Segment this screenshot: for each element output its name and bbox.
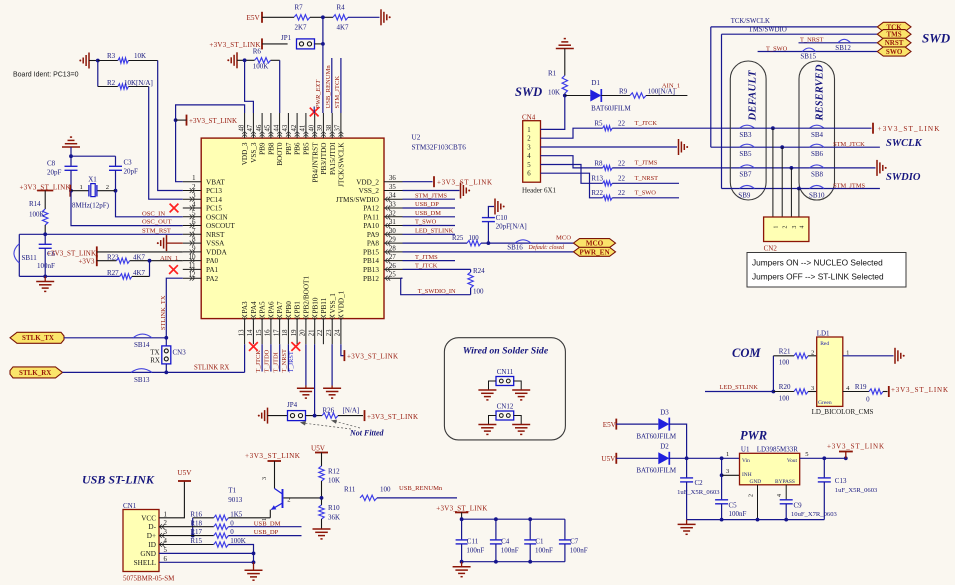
svg-text:STM_JTMS: STM_JTMS: [415, 192, 447, 199]
svg-text:100: 100: [469, 235, 480, 242]
svg-text:+3V3_ST_LINK: +3V3_ST_LINK: [367, 413, 418, 421]
svg-text:USB_DM: USB_DM: [415, 210, 441, 217]
svg-text:38: 38: [326, 124, 333, 131]
svg-text:INH: INH: [742, 472, 752, 478]
svg-text:PA9: PA9: [367, 231, 380, 239]
svg-text:12: 12: [189, 272, 196, 279]
svg-text:20pF: 20pF: [47, 169, 62, 177]
svg-text:SB7: SB7: [739, 171, 752, 179]
svg-text:T_SWO: T_SWO: [415, 219, 437, 226]
svg-text:PA15/JTDI: PA15/JTDI: [329, 142, 337, 175]
svg-text:2: 2: [287, 497, 290, 504]
svg-text:VDD_2: VDD_2: [356, 178, 379, 186]
svg-text:VSS_3: VSS_3: [250, 142, 258, 163]
svg-text:LD_BICOLOR_CMS: LD_BICOLOR_CMS: [812, 408, 874, 416]
svg-text:T_JTCK: T_JTCK: [635, 120, 658, 127]
svg-text:+3V3_ST_LINK: +3V3_ST_LINK: [47, 249, 96, 257]
svg-text:0: 0: [230, 519, 234, 527]
svg-text:100K: 100K: [29, 211, 45, 219]
svg-text:34: 34: [389, 193, 396, 200]
svg-text:PWR_EXT: PWR_EXT: [315, 79, 322, 110]
svg-text:100K: 100K: [230, 537, 246, 545]
svg-text:22: 22: [618, 175, 626, 183]
svg-text:R11: R11: [344, 486, 356, 494]
svg-text:USB_DP: USB_DP: [254, 529, 279, 536]
svg-text:SB9: SB9: [738, 191, 751, 199]
svg-text:PB12: PB12: [363, 275, 379, 283]
svg-text:SB11: SB11: [22, 254, 38, 262]
svg-text:C8: C8: [47, 159, 56, 167]
svg-text:U5V: U5V: [601, 455, 616, 463]
svg-text:CN12: CN12: [497, 403, 514, 411]
svg-text:1: 1: [846, 349, 849, 356]
svg-text:1: 1: [527, 127, 530, 134]
svg-text:23: 23: [326, 329, 333, 336]
svg-text:GND: GND: [140, 550, 156, 558]
svg-text:PB9: PB9: [259, 142, 267, 155]
svg-text:D2: D2: [660, 443, 669, 451]
svg-text:43: 43: [282, 124, 289, 131]
svg-text:PB6: PB6: [294, 142, 302, 155]
svg-text:C3: C3: [124, 158, 133, 166]
svg-text:3: 3: [527, 145, 531, 152]
svg-text:2K7: 2K7: [295, 23, 308, 31]
svg-text:PC14: PC14: [206, 196, 222, 204]
svg-text:VSSA: VSSA: [206, 240, 225, 248]
svg-text:VDD_1: VDD_1: [338, 290, 346, 313]
svg-text:STLK_TX: STLK_TX: [22, 334, 54, 342]
svg-text:JP4: JP4: [287, 401, 298, 409]
svg-text:13: 13: [238, 329, 245, 336]
svg-text:4: 4: [777, 494, 783, 497]
svg-text:PB0: PB0: [285, 301, 293, 314]
svg-text:PWR_EN: PWR_EN: [579, 248, 610, 256]
svg-text:PB4/JNTRST: PB4/JNTRST: [311, 142, 319, 183]
svg-text:2: 2: [811, 349, 814, 356]
svg-text:+3V3_ST_LINK: +3V3_ST_LINK: [189, 117, 237, 125]
svg-text:Wired on Solder Side: Wired on Solder Side: [463, 346, 549, 357]
svg-text:SB14: SB14: [134, 341, 150, 349]
svg-text:BAT60JFILM: BAT60JFILM: [591, 105, 631, 113]
svg-text:R22: R22: [591, 189, 603, 197]
svg-text:36: 36: [389, 175, 396, 182]
svg-text:15: 15: [256, 329, 263, 336]
svg-text:Vout: Vout: [787, 458, 798, 464]
svg-text:D+: D+: [147, 532, 156, 540]
svg-text:T_JTMS: T_JTMS: [635, 160, 658, 167]
svg-text:4: 4: [799, 226, 805, 229]
svg-text:OSCIN: OSCIN: [206, 213, 228, 221]
svg-text:PA2: PA2: [206, 275, 219, 283]
svg-text:R8: R8: [594, 159, 603, 167]
svg-text:OSCOUT: OSCOUT: [206, 222, 235, 230]
svg-text:100: 100: [779, 359, 790, 367]
svg-text:C13: C13: [835, 477, 847, 485]
svg-text:Jumpers OFF --> ST-LINK Select: Jumpers OFF --> ST-LINK Selected: [752, 272, 884, 282]
svg-text:SB10: SB10: [809, 191, 825, 199]
svg-text:BOOT0: BOOT0: [276, 142, 284, 166]
svg-text:CN3: CN3: [173, 349, 187, 357]
svg-text:PB7: PB7: [285, 142, 293, 155]
svg-text:20pF[N/A]: 20pF[N/A]: [496, 223, 527, 231]
svg-text:T_JTDO: T_JTDO: [264, 349, 271, 372]
svg-text:AIN_1: AIN_1: [662, 82, 680, 89]
svg-text:10uF_X7R_0603: 10uF_X7R_0603: [791, 511, 837, 518]
svg-text:PB15: PB15: [363, 249, 379, 257]
svg-text:PA4: PA4: [250, 301, 258, 314]
svg-text:2: 2: [106, 184, 109, 191]
svg-text:22: 22: [317, 329, 324, 336]
svg-text:47: 47: [247, 124, 254, 131]
svg-text:100nF: 100nF: [501, 546, 519, 554]
svg-text:+3V3_ST_LINK: +3V3_ST_LINK: [878, 125, 941, 133]
svg-text:T_SWO: T_SWO: [635, 190, 657, 197]
svg-text:PA3: PA3: [241, 301, 249, 314]
svg-text:100: 100: [779, 394, 790, 402]
svg-text:PWR: PWR: [740, 429, 767, 443]
svg-text:26: 26: [389, 263, 396, 270]
svg-text:STM_RST: STM_RST: [142, 228, 171, 235]
svg-text:SB12: SB12: [835, 44, 851, 52]
svg-text:C11: C11: [467, 538, 479, 546]
svg-text:MCO: MCO: [556, 234, 571, 241]
svg-text:T_JTCK: T_JTCK: [415, 263, 438, 270]
svg-text:41: 41: [300, 125, 307, 132]
svg-text:R4: R4: [337, 4, 346, 12]
svg-text:100: 100: [473, 288, 484, 296]
svg-text:2: 2: [527, 136, 531, 143]
svg-text:Default: closed: Default: closed: [528, 244, 565, 251]
svg-text:35: 35: [389, 184, 396, 191]
svg-text:10K: 10K: [134, 52, 146, 60]
svg-text:R21: R21: [779, 347, 791, 355]
svg-text:3: 3: [792, 226, 798, 229]
svg-text:PA11: PA11: [364, 213, 380, 221]
svg-text:4K7: 4K7: [337, 23, 350, 31]
svg-text:CN2: CN2: [764, 245, 778, 253]
svg-text:R3: R3: [107, 52, 116, 60]
svg-text:20: 20: [300, 329, 307, 336]
svg-text:22: 22: [618, 159, 626, 167]
svg-text:T_NRST: T_NRST: [281, 349, 288, 373]
svg-text:LD1: LD1: [817, 330, 830, 338]
svg-text:40: 40: [309, 124, 316, 131]
svg-text:42: 42: [291, 124, 298, 131]
svg-text:1: 1: [80, 184, 83, 191]
svg-text:USB_RENUMn: USB_RENUMn: [325, 65, 332, 109]
svg-text:100: 100: [380, 486, 391, 494]
svg-text:C1: C1: [535, 538, 544, 546]
svg-text:SWCLK: SWCLK: [886, 138, 923, 149]
svg-text:30: 30: [389, 228, 396, 235]
svg-text:25: 25: [389, 272, 396, 279]
svg-text:100K: 100K: [253, 63, 269, 71]
svg-text:9013: 9013: [228, 496, 243, 504]
svg-text:2: 2: [749, 494, 755, 497]
svg-text:SB5: SB5: [739, 150, 752, 158]
svg-text:R2: R2: [107, 79, 116, 87]
svg-text:Header 6X1: Header 6X1: [522, 186, 557, 194]
svg-text:C10: C10: [496, 214, 508, 222]
svg-text:CN4: CN4: [522, 113, 536, 121]
svg-text:1: 1: [726, 451, 729, 458]
svg-text:19: 19: [291, 329, 298, 336]
svg-text:R6: R6: [253, 47, 262, 55]
svg-text:E5V: E5V: [247, 14, 261, 22]
svg-text:1uF_X5R_0603: 1uF_X5R_0603: [835, 487, 878, 494]
svg-text:R16: R16: [190, 510, 202, 518]
svg-text:STM_JTCK: STM_JTCK: [334, 76, 341, 109]
svg-text:R7: R7: [295, 4, 304, 12]
svg-text:T_SWDIO_IN: T_SWDIO_IN: [418, 288, 456, 295]
svg-text:R18: R18: [190, 519, 202, 527]
svg-text:VCC: VCC: [141, 514, 156, 522]
svg-text:37: 37: [335, 124, 342, 131]
svg-text:10K: 10K: [328, 477, 340, 485]
svg-text:31: 31: [389, 219, 396, 226]
svg-text:VSS_1: VSS_1: [329, 293, 337, 314]
svg-text:PA7: PA7: [276, 301, 284, 314]
svg-text:44: 44: [273, 124, 280, 131]
svg-text:LED_STLINK: LED_STLINK: [415, 228, 454, 235]
svg-text:LD3985M33R: LD3985M33R: [757, 445, 799, 453]
svg-text:100nF: 100nF: [466, 546, 484, 554]
svg-text:100nF: 100nF: [570, 546, 588, 554]
svg-text:+3V3_ST_LINK: +3V3_ST_LINK: [347, 352, 398, 360]
svg-text:1uF_X5R_0603: 1uF_X5R_0603: [677, 489, 720, 496]
svg-text:PB10: PB10: [311, 297, 319, 313]
svg-text:PB3/JTDO: PB3/JTDO: [320, 143, 328, 175]
svg-text:+3V3_ST_LINK: +3V3_ST_LINK: [245, 452, 301, 460]
svg-text:NRST: NRST: [885, 39, 904, 47]
svg-text:T_JTMS: T_JTMS: [415, 254, 438, 261]
svg-text:PA0: PA0: [206, 257, 219, 265]
svg-text:SWD: SWD: [515, 85, 542, 99]
svg-text:24: 24: [335, 329, 342, 336]
svg-text:GND: GND: [750, 479, 762, 485]
svg-text:0: 0: [866, 396, 870, 404]
svg-text:[N/A]: [N/A]: [343, 406, 360, 414]
svg-text:USB_RENUMn: USB_RENUMn: [399, 485, 443, 492]
svg-text:SB3: SB3: [739, 131, 752, 139]
svg-text:JTMS/SWDIO: JTMS/SWDIO: [336, 196, 379, 204]
svg-text:SB6: SB6: [811, 150, 824, 158]
svg-text:CN1: CN1: [123, 502, 137, 510]
svg-text:NRST: NRST: [206, 231, 225, 239]
svg-text:R20: R20: [779, 383, 791, 391]
svg-text:SB8: SB8: [811, 171, 824, 179]
svg-text:VDDA: VDDA: [206, 249, 228, 257]
svg-text:TMS/SWDIO: TMS/SWDIO: [749, 27, 787, 34]
svg-text:U1: U1: [741, 445, 750, 453]
svg-text:Green: Green: [818, 400, 832, 406]
svg-text:COM: COM: [732, 346, 761, 360]
svg-text:10K: 10K: [548, 89, 560, 97]
svg-text:22: 22: [618, 189, 626, 197]
svg-text:D1: D1: [591, 79, 600, 87]
svg-text:D-: D-: [148, 523, 156, 531]
svg-text:SB16: SB16: [507, 244, 523, 252]
svg-text:36K: 36K: [328, 513, 340, 521]
svg-text:VBAT: VBAT: [206, 178, 225, 186]
svg-text:R17: R17: [190, 528, 202, 536]
svg-text:R5: R5: [594, 120, 603, 128]
svg-text:1: 1: [773, 226, 779, 229]
svg-text:PB2/BOOT1: PB2/BOOT1: [303, 276, 311, 314]
svg-text:+3V3_ST_LINK: +3V3_ST_LINK: [437, 178, 492, 186]
svg-text:+3V3_ST_LINK: +3V3_ST_LINK: [891, 386, 948, 394]
svg-text:RX: RX: [150, 357, 160, 365]
svg-text:PB5: PB5: [303, 142, 311, 155]
svg-text:STLK_RX: STLK_RX: [19, 369, 51, 377]
svg-text:BAT60JFILM: BAT60JFILM: [636, 432, 676, 440]
svg-text:BYPASS: BYPASS: [775, 479, 795, 485]
svg-text:T_NRST: T_NRST: [635, 175, 659, 182]
svg-text:MCO: MCO: [586, 240, 604, 248]
svg-text:16: 16: [265, 329, 272, 336]
svg-text:C5: C5: [729, 502, 738, 510]
svg-text:32: 32: [389, 210, 396, 217]
svg-text:SB13: SB13: [134, 376, 150, 384]
svg-text:100nF: 100nF: [37, 262, 55, 270]
svg-text:JP1: JP1: [281, 34, 292, 42]
svg-text:33: 33: [389, 202, 396, 209]
svg-text:SB15: SB15: [800, 53, 816, 61]
svg-text:20pF: 20pF: [124, 168, 139, 176]
svg-text:U5V: U5V: [311, 444, 326, 452]
svg-text:5075BMR-05-SM: 5075BMR-05-SM: [123, 574, 175, 582]
svg-text:VDD_3: VDD_3: [241, 142, 249, 165]
svg-text:48: 48: [238, 124, 245, 131]
svg-text:PB8: PB8: [268, 142, 276, 155]
svg-text:R27: R27: [107, 269, 119, 277]
svg-text:USB_DP: USB_DP: [415, 201, 439, 208]
svg-text:JTCK/SWCLK: JTCK/SWCLK: [338, 142, 346, 187]
svg-text:ID: ID: [148, 541, 156, 549]
svg-text:17: 17: [273, 329, 280, 336]
svg-text:BAT60JFILM: BAT60JFILM: [636, 467, 676, 475]
svg-text:R25: R25: [452, 235, 464, 242]
svg-text:+3V3: +3V3: [78, 257, 95, 265]
svg-text:C2: C2: [695, 479, 704, 487]
svg-text:AIN_1: AIN_1: [160, 255, 178, 262]
svg-text:SHELL: SHELL: [134, 559, 156, 567]
svg-text:R19: R19: [855, 383, 867, 391]
svg-text:C7: C7: [570, 538, 579, 546]
svg-text:C4: C4: [501, 538, 510, 546]
svg-text:PA8: PA8: [367, 240, 380, 248]
svg-text:1: 1: [192, 175, 195, 182]
svg-text:4: 4: [527, 153, 531, 160]
svg-text:27: 27: [389, 254, 396, 261]
svg-text:OSC_OUT: OSC_OUT: [142, 218, 172, 225]
svg-text:6: 6: [527, 171, 531, 178]
svg-text:21: 21: [309, 330, 316, 337]
svg-text:PB13: PB13: [363, 266, 379, 274]
svg-text:SB4: SB4: [811, 131, 824, 139]
svg-text:100nF: 100nF: [729, 510, 747, 518]
svg-text:+3V3_ST_LINK: +3V3_ST_LINK: [827, 442, 884, 450]
svg-text:45: 45: [265, 124, 272, 131]
svg-text:PB11: PB11: [320, 297, 328, 313]
svg-text:1K5: 1K5: [230, 510, 243, 518]
svg-text:R24: R24: [473, 267, 485, 275]
svg-text:2: 2: [783, 226, 789, 229]
svg-text:C9: C9: [794, 502, 803, 510]
svg-text:T_JTDI: T_JTDI: [273, 352, 280, 372]
svg-text:STM_JTMS: STM_JTMS: [833, 182, 865, 189]
svg-text:T_SWO: T_SWO: [766, 46, 788, 53]
svg-text:TX: TX: [150, 349, 159, 357]
svg-text:SWO: SWO: [886, 48, 903, 56]
svg-text:29: 29: [389, 237, 396, 244]
svg-text:T_JRST: T_JRST: [288, 351, 295, 372]
svg-text:39: 39: [317, 124, 324, 131]
svg-text:RESERVED: RESERVED: [815, 64, 826, 121]
svg-text:SWD: SWD: [922, 31, 951, 46]
svg-text:R13: R13: [591, 175, 603, 183]
svg-text:R10: R10: [328, 504, 340, 512]
svg-text:PB14: PB14: [363, 257, 379, 265]
svg-text:Not Fitted: Not Fitted: [349, 429, 385, 438]
svg-text:R15: R15: [190, 537, 202, 545]
svg-text:8MHz(12pF): 8MHz(12pF): [72, 201, 110, 209]
svg-text:PA6: PA6: [268, 301, 276, 314]
svg-text:Vin: Vin: [742, 458, 750, 464]
svg-text:PA5: PA5: [259, 301, 267, 314]
svg-text:Red: Red: [820, 341, 829, 347]
svg-text:R9: R9: [619, 87, 628, 95]
svg-text:U5V: U5V: [177, 469, 192, 477]
svg-text:14: 14: [247, 329, 254, 336]
svg-text:STM_JTCK: STM_JTCK: [833, 141, 865, 148]
svg-text:R12: R12: [328, 467, 340, 475]
svg-text:D3: D3: [660, 409, 669, 417]
svg-text:SWDIO: SWDIO: [886, 172, 921, 183]
svg-text:TCK/SWCLK: TCK/SWCLK: [731, 18, 770, 25]
svg-text:+3V3_ST_LINK: +3V3_ST_LINK: [436, 505, 487, 513]
svg-text:46: 46: [256, 124, 263, 131]
svg-text:PA1: PA1: [206, 266, 219, 274]
svg-text:USB ST-LINK: USB ST-LINK: [82, 473, 155, 487]
svg-text:22: 22: [618, 120, 626, 128]
svg-text:1: 1: [261, 518, 268, 521]
svg-text:PA12: PA12: [363, 205, 379, 213]
svg-text:T_JTCK: T_JTCK: [255, 350, 262, 373]
svg-text:PC15: PC15: [206, 205, 222, 213]
svg-text:18: 18: [282, 329, 289, 336]
svg-text:PC13: PC13: [206, 187, 222, 195]
svg-text:5: 5: [527, 162, 531, 169]
svg-text:STLINK RX: STLINK RX: [194, 364, 229, 371]
svg-text:PA10: PA10: [363, 222, 379, 230]
svg-text:Jumpers ON --> NUCLEO Selecte: Jumpers ON --> NUCLEO Selected: [752, 258, 883, 268]
svg-text:LED_STLINK: LED_STLINK: [720, 384, 759, 391]
svg-text:Board Ident: PC13=0: Board Ident: PC13=0: [13, 72, 79, 79]
svg-text:OSC_IN: OSC_IN: [142, 210, 165, 217]
svg-text:E5V: E5V: [603, 421, 617, 429]
svg-text:3: 3: [261, 477, 268, 480]
svg-text:TMS: TMS: [887, 31, 902, 39]
svg-text:T1: T1: [228, 486, 236, 494]
svg-text:X1: X1: [88, 176, 97, 184]
svg-text:R1: R1: [548, 70, 557, 78]
svg-text:CN11: CN11: [497, 368, 514, 376]
svg-text:PB1: PB1: [294, 301, 302, 314]
svg-text:STLINK_TX: STLINK_TX: [160, 295, 167, 330]
svg-text:10: 10: [189, 254, 196, 261]
svg-text:100nF: 100nF: [535, 546, 553, 554]
